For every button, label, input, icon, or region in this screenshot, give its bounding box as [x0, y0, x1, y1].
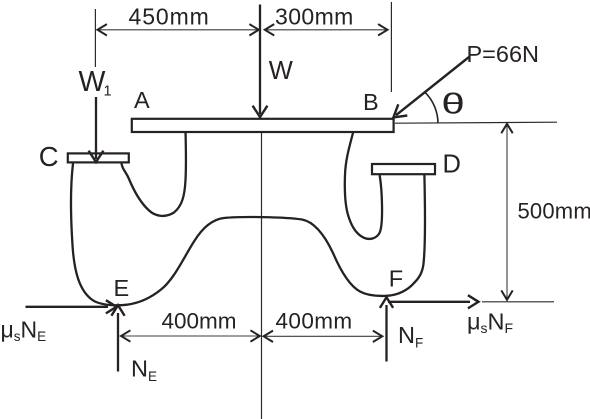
wire horizontal reference line top right — [395, 122, 557, 123]
node centerline — [261, 131, 263, 419]
svg-text:A: A — [134, 87, 150, 113]
svg-text:W: W — [79, 66, 106, 98]
svg-text:1: 1 — [104, 84, 112, 100]
force normal N_E — [117, 313, 119, 372]
dimension 500mm — [506, 125, 508, 299]
force W — [259, 5, 261, 115]
force friction at F — [388, 301, 470, 303]
force normal N_F — [385, 305, 387, 362]
force friction at E — [26, 306, 109, 308]
dimension 400mm right — [265, 335, 382, 337]
beam AB — [132, 119, 394, 132]
svg-text:P=66N: P=66N — [467, 41, 540, 67]
svg-text:400mm: 400mm — [276, 308, 353, 333]
svg-text:θ: θ — [441, 87, 464, 120]
bracket D — [372, 164, 435, 174]
wire extension line right (above B) — [390, 2, 392, 92]
svg-text:F: F — [389, 266, 403, 292]
svg-text:W: W — [269, 57, 293, 85]
svg-text:400mm: 400mm — [162, 308, 237, 333]
angle theta arc — [425, 92, 438, 123]
svg-text:450mm: 450mm — [129, 4, 210, 30]
svg-text:300mm: 300mm — [275, 4, 354, 30]
wire extension line left (above W1) — [94, 9, 96, 67]
svg-text:E: E — [114, 275, 130, 301]
wire horizontal reference line bottom right — [482, 301, 554, 303]
dimension 400mm left — [122, 335, 259, 337]
bracket C — [68, 153, 129, 162]
force P=66N — [396, 57, 469, 115]
dimension 450mm — [99, 29, 259, 31]
body outer outline (C leg, E foot, hump, F foot, D leg) — [71, 164, 425, 306]
dimension 300mm — [266, 29, 387, 31]
wire right hanger (beam to narrow U, to D bracket) — [345, 131, 382, 239]
svg-text:D: D — [443, 151, 461, 179]
svg-text:C: C — [39, 141, 59, 172]
svg-text:500mm: 500mm — [518, 198, 590, 223]
wire left hanger (beam to left U, to C bracket) — [122, 131, 186, 216]
force W1 — [95, 97, 97, 159]
svg-text:B: B — [363, 89, 379, 115]
